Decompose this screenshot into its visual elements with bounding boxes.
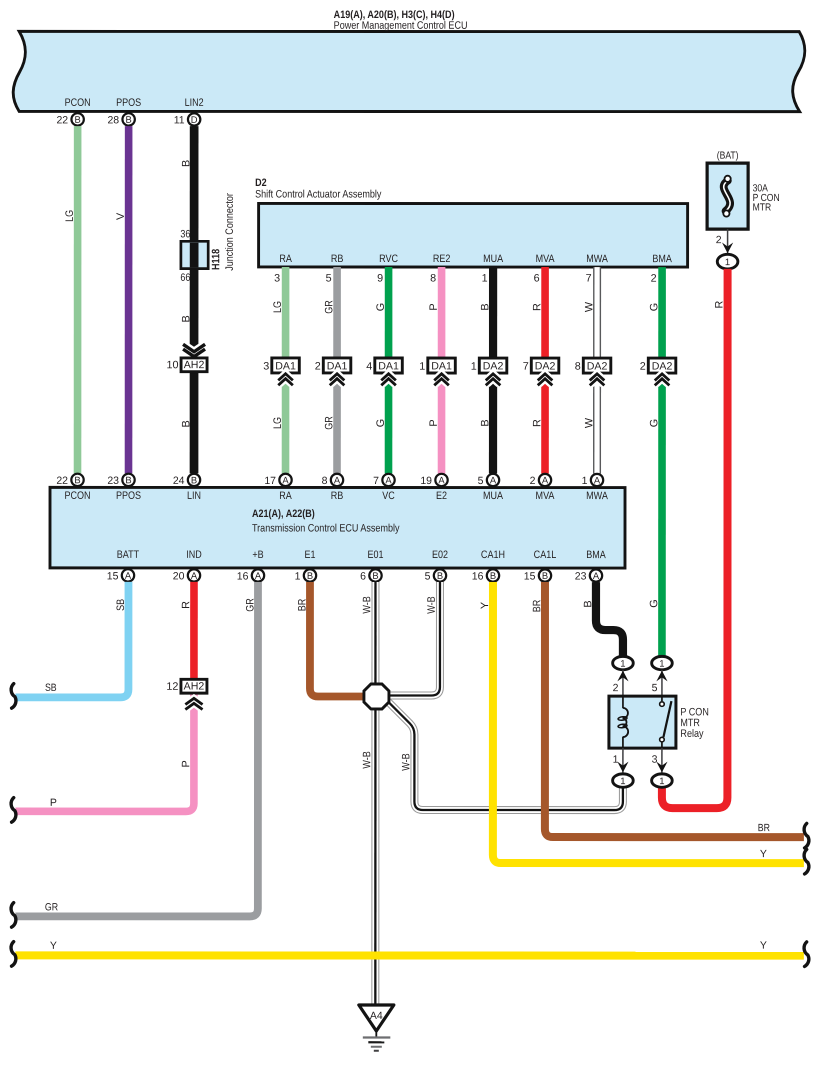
fuse 30A P CON MTR — [707, 151, 780, 255]
svg-text:A: A — [385, 474, 392, 485]
squiggle right Y2 — [804, 942, 809, 967]
ECU top pin 23 B — [107, 474, 134, 487]
svg-text:A: A — [191, 570, 198, 581]
svg-text:5: 5 — [326, 272, 332, 284]
svg-text:7: 7 — [373, 475, 379, 487]
svg-text:BR: BR — [531, 600, 543, 613]
wire Y full width — [15, 939, 804, 955]
svg-text:3: 3 — [263, 361, 269, 373]
svg-text:H118: H118 — [210, 249, 222, 270]
wire IND R — [180, 582, 194, 679]
wire CA1H Y — [479, 582, 804, 863]
svg-text:RE2: RE2 — [433, 253, 451, 265]
wire BMA B to relay — [582, 582, 623, 656]
svg-text:1: 1 — [295, 570, 301, 582]
svg-text:RA: RA — [279, 490, 292, 502]
ECU bottom pin 20 A — [173, 569, 200, 582]
svg-text:W-B: W-B — [361, 751, 373, 768]
wire W-B junction to relay pin 1 — [388, 702, 623, 810]
svg-text:B: B — [125, 474, 131, 485]
svg-text:19: 19 — [420, 475, 432, 487]
svg-text:7: 7 — [523, 361, 529, 373]
wire D2 pin 1 colour B — [479, 267, 493, 474]
svg-text:5: 5 — [425, 571, 431, 583]
svg-text:MTR: MTR — [753, 203, 772, 214]
squiggle left SB — [11, 684, 16, 709]
svg-text:E2: E2 — [436, 490, 447, 502]
svg-text:A: A — [438, 474, 445, 485]
svg-text:CA1L: CA1L — [534, 549, 557, 561]
svg-text:Junction Connector: Junction Connector — [224, 193, 236, 271]
svg-text:B: B — [479, 303, 491, 310]
wire CA1L BR — [531, 582, 804, 837]
svg-text:P: P — [428, 419, 440, 426]
ECU top pin 1 A — [582, 474, 604, 487]
svg-text:B: B — [75, 114, 81, 125]
svg-text:A: A — [334, 474, 341, 485]
connector 8 DA2 — [575, 358, 611, 385]
svg-text:MWA: MWA — [586, 253, 608, 265]
svg-text:W: W — [583, 417, 595, 428]
wire E02 W-B — [389, 582, 440, 696]
svg-text:1: 1 — [620, 659, 625, 670]
svg-text:AH2: AH2 — [184, 359, 205, 371]
svg-text:15: 15 — [107, 570, 119, 582]
svg-text:MUA: MUA — [483, 490, 504, 502]
svg-text:B: B — [180, 160, 192, 167]
relay pin 1 lead — [613, 748, 629, 774]
ground A4 — [359, 1005, 394, 1051]
svg-text:PPOS: PPOS — [116, 97, 141, 109]
squiggle left Y — [11, 942, 16, 967]
svg-text:1: 1 — [659, 776, 664, 787]
svg-text:36: 36 — [180, 228, 190, 240]
relay bottom connector 1 (pin1 side) — [613, 774, 634, 787]
svg-text:RB: RB — [331, 253, 344, 265]
svg-text:GR: GR — [323, 300, 335, 314]
svg-text:SB: SB — [45, 682, 57, 694]
svg-text:Shift Control Actuator Assembl: Shift Control Actuator Assembly — [255, 188, 382, 200]
svg-text:G: G — [648, 599, 660, 607]
svg-text:6: 6 — [534, 273, 540, 285]
connector 1 DA2 — [471, 358, 507, 385]
svg-text:SB: SB — [115, 599, 127, 611]
svg-text:11: 11 — [174, 114, 185, 126]
svg-text:16: 16 — [472, 571, 484, 583]
svg-text:20: 20 — [173, 570, 185, 582]
wire E1 BR — [296, 582, 365, 697]
ECU bottom pin 1 B — [295, 569, 317, 582]
svg-text:A21(A), A22(B): A21(A), A22(B) — [252, 508, 315, 520]
wire +B GR — [15, 582, 258, 917]
connector 7 DA2 — [523, 358, 559, 385]
svg-text:E1: E1 — [304, 549, 315, 561]
wire E01 W-B to ground — [361, 582, 375, 1004]
relay pin 5 lead — [652, 670, 668, 700]
svg-text:MUA: MUA — [483, 253, 504, 265]
svg-text:Y: Y — [50, 940, 57, 952]
svg-text:22: 22 — [56, 475, 68, 487]
svg-text:1: 1 — [482, 273, 488, 285]
svg-text:BR: BR — [758, 822, 771, 834]
svg-text:BMA: BMA — [652, 253, 672, 265]
svg-text:1: 1 — [613, 754, 619, 766]
svg-text:G: G — [648, 419, 660, 427]
svg-text:A: A — [542, 474, 549, 485]
svg-text:2: 2 — [530, 475, 536, 487]
svg-text:MVA: MVA — [536, 490, 556, 502]
wire AH2 P pink — [15, 694, 194, 812]
svg-text:LG: LG — [272, 417, 284, 429]
relay bottom connector 1 (pin3 side) — [652, 774, 673, 787]
svg-text:Y: Y — [479, 602, 491, 609]
svg-text:5: 5 — [478, 475, 484, 487]
svg-text:IND: IND — [186, 549, 202, 561]
svg-text:Transmission Control ECU Assem: Transmission Control ECU Assembly — [252, 522, 400, 534]
wire PCON LG — [64, 126, 78, 473]
svg-text:BATT: BATT — [117, 549, 140, 561]
wire D2 pin 5 colour GR — [323, 267, 337, 474]
svg-text:66: 66 — [180, 272, 190, 284]
svg-text:A: A — [282, 474, 289, 485]
pin 22 B of band — [56, 113, 83, 126]
squiggle left P — [11, 798, 16, 823]
ECU top pin 2 A — [530, 474, 552, 487]
svg-text:P: P — [180, 760, 192, 767]
svg-text:1: 1 — [582, 475, 588, 487]
wire BATT SB — [15, 582, 128, 698]
svg-text:2: 2 — [640, 361, 646, 373]
pin 28 B of band — [107, 113, 134, 126]
svg-text:16: 16 — [237, 570, 249, 582]
svg-text:B: B — [479, 419, 491, 426]
ECU band: Power Management Control ECU — [13, 9, 805, 112]
svg-text:B: B — [74, 474, 80, 485]
svg-text:12: 12 — [166, 681, 178, 693]
svg-text:8: 8 — [322, 475, 328, 487]
svg-text:V: V — [115, 212, 127, 220]
connector 4 DA1 — [366, 358, 402, 385]
svg-text:MWA: MWA — [586, 490, 608, 502]
svg-text:3: 3 — [652, 754, 658, 766]
svg-text:7: 7 — [586, 273, 592, 285]
ECU top pin 5 A — [478, 474, 500, 487]
svg-text:W-B: W-B — [400, 753, 412, 770]
svg-text:W-B: W-B — [361, 596, 373, 613]
svg-text:B: B — [582, 600, 594, 607]
svg-text:9: 9 — [377, 272, 383, 284]
relay top connector 1 (pin5 side) — [652, 656, 673, 669]
svg-text:CA1H: CA1H — [481, 549, 505, 561]
relay switch — [660, 696, 672, 748]
svg-text:17: 17 — [264, 475, 276, 487]
svg-text:PCON: PCON — [64, 490, 90, 502]
svg-text:RVC: RVC — [379, 253, 398, 265]
svg-text:1: 1 — [659, 659, 664, 670]
ECU bottom pin 6 B — [360, 569, 382, 582]
svg-text:A: A — [125, 570, 132, 581]
svg-text:E01: E01 — [367, 549, 383, 561]
svg-text:P: P — [50, 797, 57, 809]
svg-text:A4: A4 — [370, 1010, 383, 1022]
svg-text:W-B: W-B — [426, 596, 438, 613]
svg-text:W: W — [583, 301, 595, 312]
svg-text:GR: GR — [45, 901, 59, 913]
relay pin 3 lead — [652, 748, 668, 774]
ECU top pin 22 B — [56, 474, 83, 487]
squiggle right BR — [804, 823, 809, 848]
ECU bottom pin 15 B — [524, 569, 551, 582]
svg-text:LG: LG — [272, 301, 284, 313]
svg-text:D2: D2 — [255, 177, 267, 189]
ECU bottom pin 16 B — [472, 569, 499, 582]
connector 2 DA1 — [315, 358, 351, 385]
svg-text:VC: VC — [382, 490, 395, 502]
svg-text:Y: Y — [760, 848, 767, 860]
wire fuse R to relay pin 3 — [662, 269, 728, 808]
svg-text:GR: GR — [244, 598, 256, 612]
svg-text:B: B — [372, 570, 378, 581]
svg-text:B: B — [180, 420, 192, 427]
svg-text:1: 1 — [471, 361, 477, 373]
connector 1 DA1 — [419, 358, 455, 385]
wire D2 pin 7 colour W — [583, 267, 597, 474]
svg-text:A: A — [255, 570, 262, 581]
squiggle left GR — [11, 903, 16, 928]
svg-text:LIN2: LIN2 — [185, 97, 204, 109]
svg-text:P: P — [428, 303, 440, 310]
relay top connector 1 (pin2 side) — [613, 656, 634, 669]
ECU bottom pin 16 A — [237, 569, 264, 582]
svg-text:RA: RA — [279, 253, 292, 265]
svg-text:R: R — [531, 419, 543, 427]
svg-text:4: 4 — [366, 361, 372, 373]
squiggle right Y — [804, 849, 809, 874]
svg-text:LG: LG — [64, 210, 76, 222]
svg-text:B: B — [180, 315, 192, 322]
svg-text:BR: BR — [296, 599, 308, 612]
ECU bottom pin 15 A — [107, 569, 134, 582]
svg-text:23: 23 — [575, 571, 587, 583]
relay pin 2 lead — [613, 670, 629, 696]
svg-text:RB: RB — [331, 490, 344, 502]
svg-text:2: 2 — [651, 273, 657, 285]
junction connector H118 — [180, 193, 236, 284]
junction node octagon — [364, 684, 389, 709]
svg-text:R: R — [713, 301, 725, 309]
svg-text:A: A — [490, 474, 497, 485]
connector 3 DA1 — [263, 358, 299, 385]
svg-text:E02: E02 — [432, 549, 448, 561]
svg-text:(BAT): (BAT) — [717, 151, 739, 162]
wire D2 pin 8 colour P — [428, 267, 442, 474]
svg-text:BMA: BMA — [586, 549, 606, 561]
svg-text:3: 3 — [274, 272, 280, 284]
svg-text:A: A — [594, 474, 601, 485]
svg-text:G: G — [648, 303, 660, 311]
svg-text:B: B — [191, 474, 197, 485]
svg-text:LIN: LIN — [187, 490, 201, 502]
svg-text:5: 5 — [652, 682, 658, 694]
svg-text:10: 10 — [167, 359, 179, 371]
svg-text:2: 2 — [716, 234, 722, 246]
wire PPOS V — [115, 126, 129, 473]
fuse output connector 1 — [717, 254, 738, 269]
connector 12 AH2 — [166, 679, 207, 709]
svg-text:1: 1 — [725, 257, 730, 268]
svg-text:8: 8 — [575, 361, 581, 373]
svg-text:Relay: Relay — [680, 728, 704, 740]
svg-text:G: G — [375, 303, 387, 311]
svg-text:B: B — [542, 570, 548, 581]
svg-text:15: 15 — [524, 571, 536, 583]
svg-text:6: 6 — [360, 570, 366, 582]
svg-text:A: A — [593, 570, 600, 581]
svg-text:8: 8 — [430, 273, 436, 285]
svg-text:MVA: MVA — [536, 253, 556, 265]
svg-text:PCON: PCON — [65, 97, 91, 109]
svg-text:Power Management Control ECU: Power Management Control ECU — [334, 20, 468, 32]
svg-text:AH2: AH2 — [184, 681, 205, 693]
svg-text:23: 23 — [107, 475, 119, 487]
svg-text:22: 22 — [56, 114, 68, 126]
svg-text:28: 28 — [107, 114, 119, 126]
svg-text:1: 1 — [620, 776, 625, 787]
wire D2 pin 9 colour G — [375, 267, 389, 474]
svg-text:D: D — [191, 114, 198, 125]
svg-text:GR: GR — [323, 416, 335, 430]
relay coil — [618, 696, 628, 748]
wire D2 pin 3 colour LG — [272, 267, 286, 474]
svg-text:B: B — [126, 114, 132, 125]
svg-text:R: R — [180, 601, 192, 609]
ECU top pin 7 A — [373, 474, 395, 487]
ECU top pin 19 A — [420, 474, 447, 487]
svg-text:2: 2 — [315, 361, 321, 373]
wire LIN2 B — [180, 126, 194, 473]
relay P CON MTR Relay box — [609, 696, 709, 748]
svg-text:2: 2 — [613, 682, 619, 694]
svg-text:G: G — [375, 419, 387, 427]
ECU top pin 8 A — [322, 474, 344, 487]
ECU top pin 17 A — [264, 474, 291, 487]
D2 Shift Control Actuator Assembly box — [255, 177, 688, 267]
svg-text:B: B — [307, 570, 313, 581]
ECU top pin 24 B — [173, 474, 200, 487]
pin 11 D of band — [174, 113, 201, 126]
svg-text:1: 1 — [419, 361, 425, 373]
Transmission Control ECU Assembly box — [50, 487, 625, 568]
svg-text:Y: Y — [760, 940, 767, 952]
svg-text:PPOS: PPOS — [116, 490, 141, 502]
svg-text:B: B — [490, 570, 496, 581]
svg-text:24: 24 — [173, 475, 185, 487]
ECU bottom pin 5 B — [425, 569, 447, 582]
svg-text:R: R — [531, 303, 543, 311]
svg-text:+B: +B — [252, 549, 263, 561]
connector 2 DA2 — [640, 358, 676, 385]
svg-text:B: B — [437, 570, 443, 581]
wire D2 pin 6 colour R — [531, 267, 545, 474]
connector 10 AH2 — [167, 344, 208, 371]
wire D2 pin 2 colour G — [648, 267, 662, 657]
ECU bottom pin 23 A — [575, 569, 602, 582]
